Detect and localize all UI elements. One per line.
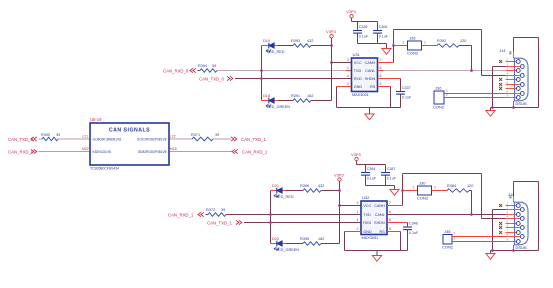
- svg-text:432: 432: [318, 184, 324, 188]
- svg-text:R396: R396: [300, 184, 309, 188]
- svg-text:0.1uF: 0.1uF: [402, 96, 412, 100]
- svg-text:D18: D18: [263, 94, 270, 98]
- svg-text:6: 6: [380, 66, 382, 70]
- svg-text:CANL: CANL: [365, 69, 375, 73]
- svg-text:2: 2: [357, 227, 359, 231]
- svg-text:CAN_TXD_1: CAN_TXD_1: [241, 137, 266, 142]
- svg-text:CON2: CON2: [442, 245, 454, 250]
- svg-text:J14: J14: [499, 48, 506, 53]
- svg-text:1: 1: [357, 210, 359, 214]
- svg-text:C387: C387: [387, 167, 396, 171]
- svg-text:DSUB: DSUB: [516, 101, 527, 106]
- svg-text:MAX3051: MAX3051: [362, 236, 379, 240]
- svg-text:R390: R390: [41, 133, 50, 137]
- svg-text:J36: J36: [435, 86, 442, 91]
- svg-text:L21: L21: [83, 134, 89, 138]
- svg-text:SHDN: SHDN: [374, 221, 385, 225]
- svg-text:L22: L22: [170, 134, 176, 138]
- svg-text:C348: C348: [409, 222, 418, 226]
- svg-text:CANH: CANH: [374, 204, 385, 208]
- svg-text:2: 2: [454, 237, 456, 241]
- svg-text:J38: J38: [444, 229, 451, 234]
- svg-text:8: 8: [389, 218, 391, 222]
- svg-text:V3P3: V3P3: [351, 152, 362, 157]
- svg-text:MAX3051: MAX3051: [352, 93, 369, 97]
- svg-text:CAN_TXD_0: CAN_TXD_0: [8, 137, 33, 142]
- svg-text:C337: C337: [402, 86, 411, 90]
- svg-text:2: 2: [413, 186, 415, 190]
- svg-text:CON2: CON2: [417, 196, 429, 201]
- svg-text:J16: J16: [508, 192, 515, 197]
- svg-text:0.1uF: 0.1uF: [379, 35, 389, 39]
- svg-text:8: 8: [380, 74, 382, 78]
- svg-text:120: 120: [467, 184, 473, 188]
- svg-text:VCC: VCC: [354, 61, 362, 65]
- svg-text:5: 5: [380, 82, 382, 86]
- svg-text:V3P3: V3P3: [326, 29, 337, 34]
- svg-text:432: 432: [307, 39, 313, 43]
- svg-text:RXD: RXD: [363, 221, 371, 225]
- svg-text:K82NC81V8: K82NC81V8: [93, 150, 111, 154]
- svg-text:39: 39: [221, 208, 225, 212]
- svg-text:R391: R391: [291, 94, 300, 98]
- svg-text:J30: J30: [419, 181, 426, 186]
- svg-text:182: 182: [307, 94, 313, 98]
- svg-text:1: 1: [434, 186, 436, 190]
- svg-text:C326: C326: [359, 25, 368, 29]
- svg-text:R395: R395: [300, 237, 309, 241]
- svg-text:M18: M18: [170, 147, 177, 151]
- svg-text:V3P3: V3P3: [346, 9, 357, 14]
- svg-text:CAN_RXD_1: CAN_RXD_1: [242, 149, 268, 154]
- svg-text:CON2: CON2: [407, 51, 419, 56]
- svg-text:M22: M22: [82, 147, 89, 151]
- svg-text:CAN SIGNALS: CAN SIGNALS: [109, 127, 150, 133]
- svg-text:1: 1: [454, 232, 456, 236]
- svg-text:39: 39: [212, 64, 216, 68]
- svg-text:VCC: VCC: [363, 204, 371, 208]
- svg-text:4: 4: [347, 74, 349, 78]
- svg-text:1: 1: [424, 41, 426, 45]
- svg-text:J26: J26: [409, 36, 416, 41]
- svg-text:5: 5: [389, 227, 391, 231]
- svg-text:R392: R392: [437, 39, 446, 43]
- svg-text:GND: GND: [363, 230, 372, 234]
- svg-text:U5-19: U5-19: [90, 117, 102, 122]
- svg-text:GND: GND: [354, 85, 363, 89]
- svg-text:LED_RED: LED_RED: [267, 50, 285, 54]
- svg-text:GOC2RO82P081V8: GOC2RO82P081V8: [137, 138, 167, 142]
- svg-text:C384: C384: [367, 167, 376, 171]
- svg-text:CAN_RXD_0: CAN_RXD_0: [163, 68, 189, 73]
- svg-text:0.1uF: 0.1uF: [387, 177, 397, 181]
- svg-text:3: 3: [357, 201, 359, 205]
- svg-text:CAN_TXD_0: CAN_TXD_0: [199, 76, 224, 81]
- svg-text:39: 39: [215, 133, 219, 137]
- svg-text:CON2: CON2: [433, 105, 445, 110]
- svg-text:7: 7: [380, 58, 382, 62]
- svg-text:TXD: TXD: [354, 69, 362, 73]
- svg-text:CANL: CANL: [375, 213, 385, 217]
- svg-text:R394: R394: [198, 64, 207, 68]
- svg-text:0.1uF: 0.1uF: [409, 231, 419, 235]
- svg-text:39: 39: [56, 133, 60, 137]
- svg-text:D20: D20: [272, 237, 279, 241]
- svg-text:LED_GREEN: LED_GREEN: [276, 248, 299, 252]
- svg-text:3: 3: [347, 58, 349, 62]
- svg-text:D21: D21: [272, 184, 279, 188]
- svg-text:GO8ORC8ND81V8: GO8ORC8ND81V8: [93, 138, 122, 142]
- svg-text:2: 2: [347, 82, 349, 86]
- svg-text:R372: R372: [206, 208, 215, 212]
- svg-text:RS: RS: [370, 85, 376, 89]
- svg-text:0.1uF: 0.1uF: [367, 177, 377, 181]
- svg-text:CAN_RXD_1: CAN_RXD_1: [168, 212, 194, 217]
- svg-text:8D82RO83P081V8: 8D82RO83P081V8: [138, 150, 166, 154]
- svg-text:0.1uF: 0.1uF: [359, 35, 369, 39]
- svg-text:120: 120: [460, 39, 466, 43]
- svg-text:R393: R393: [291, 39, 300, 43]
- svg-text:4: 4: [357, 218, 359, 222]
- svg-text:V3P3: V3P3: [334, 172, 345, 177]
- svg-text:2: 2: [446, 93, 448, 97]
- svg-text:D19: D19: [263, 39, 270, 43]
- svg-text:1: 1: [347, 66, 349, 70]
- svg-text:CAN_TXD_1: CAN_TXD_1: [207, 220, 232, 225]
- svg-text:182: 182: [318, 237, 324, 241]
- svg-text:R371: R371: [191, 133, 200, 137]
- svg-text:U32: U32: [362, 195, 370, 200]
- svg-text:CANH: CANH: [365, 61, 376, 65]
- svg-text:U31: U31: [353, 52, 361, 57]
- svg-text:LED_RED: LED_RED: [276, 195, 294, 199]
- svg-text:TXD: TXD: [363, 213, 371, 217]
- svg-text:SHDN: SHDN: [365, 77, 376, 81]
- svg-text:6: 6: [389, 210, 391, 214]
- svg-text:TC2B580CF8G434: TC2B580CF8G434: [90, 167, 119, 171]
- svg-text:C306: C306: [379, 25, 388, 29]
- svg-text:RXD: RXD: [354, 77, 362, 81]
- svg-text:CAN_RXD_0: CAN_RXD_0: [8, 149, 34, 154]
- svg-text:LED_GREEN: LED_GREEN: [267, 105, 290, 109]
- svg-text:2: 2: [403, 41, 405, 45]
- svg-text:DSUB: DSUB: [516, 245, 527, 250]
- svg-text:RS: RS: [380, 230, 386, 234]
- svg-text:7: 7: [389, 201, 391, 205]
- svg-text:R384: R384: [447, 184, 456, 188]
